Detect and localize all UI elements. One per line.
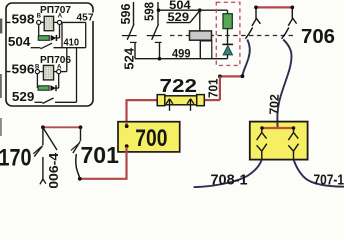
fuse pin 2 xyxy=(187,99,194,111)
svg-text:А: А xyxy=(57,65,62,71)
svg-text:529: 529 xyxy=(168,10,190,24)
resistor R (RP707 suppression) xyxy=(38,36,49,41)
label 457 xyxy=(75,13,94,22)
svg-text:529: 529 xyxy=(12,89,35,104)
label 499 xyxy=(171,49,193,58)
relay block box (left) xyxy=(6,3,93,106)
resistor (suppression, vertical) xyxy=(223,14,232,29)
red return wire down/left xyxy=(80,152,127,179)
label 598 xyxy=(11,14,37,25)
wire 504 horizontal xyxy=(159,9,228,11)
node left xyxy=(260,126,264,130)
switch 170 upper wire xyxy=(42,127,44,145)
svg-text:700: 700 xyxy=(135,125,167,152)
connector pair right xyxy=(288,129,298,141)
RP706 coil pin drops xyxy=(36,74,38,88)
wire 529 with diagonal riser xyxy=(167,22,191,24)
svg-text:598: 598 xyxy=(12,12,35,27)
svg-text:В: В xyxy=(35,65,40,71)
wire drop from pin A RP707 xyxy=(61,22,63,47)
relay K706 coil xyxy=(190,31,212,40)
blue wire 702 from right contact xyxy=(277,40,291,122)
thrown blade of switch 170 xyxy=(43,128,57,150)
RP707 coil pin drops xyxy=(38,25,40,39)
wire drop to 529 switch xyxy=(76,48,78,103)
terminal node xyxy=(125,124,129,128)
svg-text:499: 499 xyxy=(172,48,191,60)
connector pin (right contact of 706) xyxy=(288,9,296,26)
svg-text:706: 706 xyxy=(301,25,335,48)
wire 596 to RP706 xyxy=(7,71,37,73)
pin chevron at wire end xyxy=(40,179,46,184)
svg-text:701: 701 xyxy=(81,142,120,169)
switch 701 blade+tick xyxy=(73,141,80,153)
blue wire 702 stub inside box xyxy=(276,122,278,128)
suppression unit dashed outline xyxy=(216,2,240,65)
wire joining switch tops (170/701) xyxy=(43,126,81,128)
connector box (bottom right) xyxy=(250,122,308,160)
switch 170 blade+tick xyxy=(34,146,42,157)
switch S1 (596/524) xyxy=(133,2,135,25)
red feed wire (706 contacts) xyxy=(256,6,292,8)
svg-text:РП707: РП707 xyxy=(40,5,71,16)
node right xyxy=(290,6,294,10)
coil side loop wire xyxy=(201,41,212,59)
blue wire 708-1 xyxy=(194,160,262,188)
blue wire 707-1 xyxy=(294,160,344,187)
svg-text:006-4: 006-4 xyxy=(47,153,61,188)
switch blade (left contact of 706) xyxy=(245,28,252,39)
wire 529 with switch blade xyxy=(35,101,43,103)
wire 504-410 with switch blade xyxy=(31,47,41,49)
junction node xyxy=(198,8,202,12)
wire pin A RP706 to drop xyxy=(61,71,67,73)
relay RP706 coil xyxy=(43,65,53,80)
left scan artifact smudges xyxy=(0,19,2,34)
svg-text:410: 410 xyxy=(64,37,80,49)
fuse left cap xyxy=(157,95,165,106)
diode (suppression) xyxy=(222,43,233,45)
wire 457 segment xyxy=(61,21,86,23)
switch 701 upper wire xyxy=(80,127,82,141)
label 410 xyxy=(63,39,81,47)
svg-text:РП706: РП706 xyxy=(40,55,71,66)
red drop wire to unit 700 xyxy=(125,99,127,122)
red bus inside connector box xyxy=(262,127,294,129)
node left xyxy=(254,6,258,10)
coil drop wire xyxy=(199,10,201,31)
wire 598 to RP707 xyxy=(7,21,39,23)
coil lower wire xyxy=(199,40,201,59)
wire 499 xyxy=(160,58,228,60)
svg-text:708-1: 708-1 xyxy=(211,173,248,188)
node at blue joint xyxy=(241,74,245,78)
red wire to fuse left xyxy=(127,99,159,101)
label 596 xyxy=(11,64,37,75)
wire diode to 499 xyxy=(227,55,229,59)
svg-text:170: 170 xyxy=(0,145,32,172)
pin B circle RP706 xyxy=(35,70,39,74)
svg-text:598: 598 xyxy=(142,2,157,21)
svg-text:596: 596 xyxy=(12,62,35,77)
switch blade (right contact of 706) xyxy=(282,28,289,39)
svg-text:722: 722 xyxy=(160,75,198,96)
node right xyxy=(292,126,296,130)
svg-text:596: 596 xyxy=(118,4,133,25)
svg-text:707-1: 707-1 xyxy=(314,172,344,188)
pin A circle RP707 xyxy=(57,20,61,24)
svg-text:524: 524 xyxy=(122,47,137,70)
junction node xyxy=(158,57,162,61)
red stub inside 700 bottom xyxy=(125,147,127,152)
svg-text:702: 702 xyxy=(267,94,282,115)
switch 701 lower wire xyxy=(76,154,80,179)
diode VD (RP706) xyxy=(50,85,56,91)
red stub inside 700 top xyxy=(125,122,127,125)
node right xyxy=(79,125,83,129)
junction node xyxy=(218,75,222,79)
wire drop to RP706 row xyxy=(66,48,68,72)
node on 598 riser xyxy=(157,8,161,12)
red riser wire 701 xyxy=(219,76,221,100)
unit 700 box xyxy=(118,122,180,152)
fuse right cap xyxy=(197,95,205,106)
terminal node xyxy=(125,144,129,148)
pin B circle RP707 xyxy=(37,20,41,24)
svg-text:457: 457 xyxy=(77,11,94,23)
resistor R (RP706 suppression) xyxy=(38,86,49,90)
fuse pin 1 xyxy=(166,99,173,111)
red wire fuse right to riser xyxy=(204,99,220,101)
switch S2 (598) xyxy=(157,2,159,25)
relay RP707 coil xyxy=(44,16,53,30)
svg-text:504: 504 xyxy=(8,34,31,49)
mechanical link (dashed) xyxy=(170,35,296,37)
diode VD (RP707) xyxy=(51,35,57,41)
connector pin (left contact of 706) xyxy=(252,9,261,27)
wire to resistor top xyxy=(227,10,229,14)
node left xyxy=(41,125,45,129)
node at switch 701 xyxy=(78,177,82,181)
wire 457 corner drop xyxy=(85,22,87,47)
pin A circle RP706 xyxy=(57,70,61,74)
red wire junction to blue (wire 701 top) xyxy=(220,75,243,77)
bracket wire joining S1/S2 bottoms xyxy=(135,58,160,60)
svg-text:В: В xyxy=(37,14,42,20)
svg-text:701: 701 xyxy=(207,78,221,98)
fuse 722 body xyxy=(158,96,204,105)
wire resistor to diode xyxy=(227,29,229,45)
blue wire to junction 701 xyxy=(242,40,249,77)
connector pair left xyxy=(257,129,267,141)
svg-text:А: А xyxy=(58,14,63,20)
switch 170 lower wire xyxy=(42,157,44,179)
